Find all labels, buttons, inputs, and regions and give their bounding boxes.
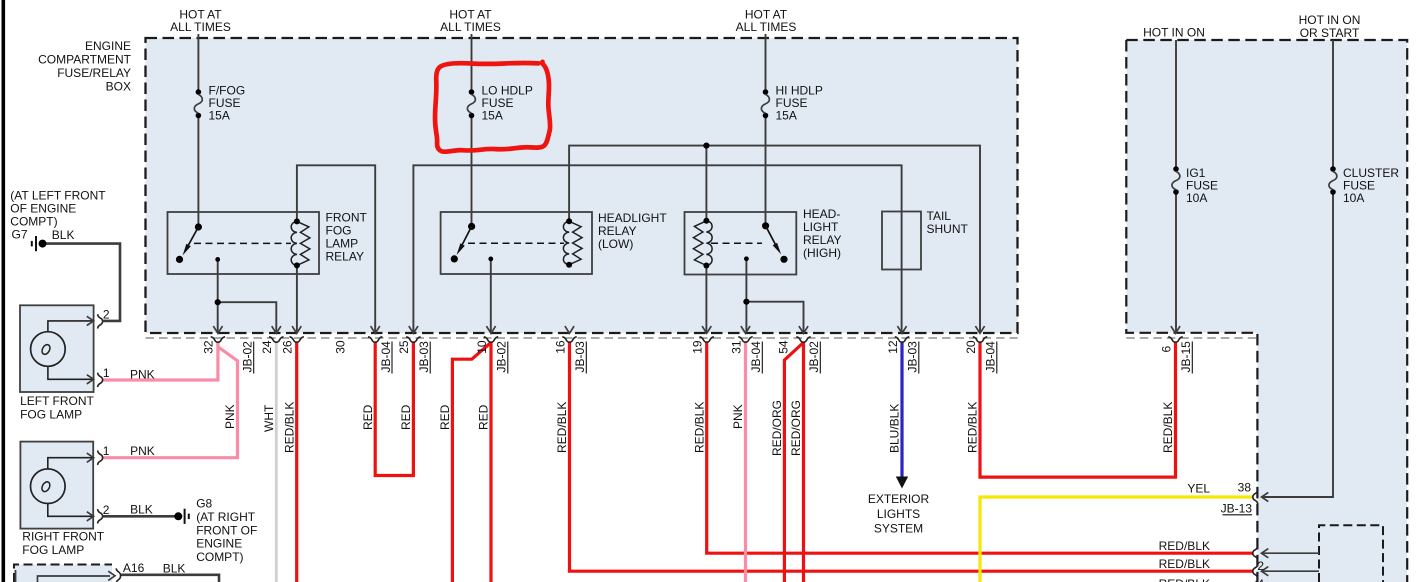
svg-text:OF ENGINE: OF ENGINE (10, 202, 76, 216)
svg-text:LIGHT: LIGHT (803, 220, 839, 234)
svg-text:ALL TIMES: ALL TIMES (170, 20, 231, 34)
svg-text:RED/BLK: RED/BLK (966, 402, 980, 453)
svg-text:1: 1 (103, 366, 110, 380)
svg-text:RED/BLK: RED/BLK (1159, 557, 1210, 571)
svg-text:15A: 15A (776, 109, 797, 123)
svg-text:JB-13: JB-13 (1221, 502, 1253, 516)
svg-text:COMPARTMENT: COMPARTMENT (38, 53, 132, 67)
label HEAD-LIGHT RELAY (HIGH) (803, 207, 841, 260)
wire fog-coil loop to conn30 (297, 165, 375, 333)
wire low-coil to conn20 (line A) (569, 146, 980, 333)
svg-text:2: 2 (1257, 559, 1264, 573)
wire RED/BLK conn26 (295, 342, 298, 582)
engine compartment fuse/relay box (dashed blue box) (146, 38, 1018, 333)
connector A16 (108, 561, 185, 582)
fuse IG1 10A (1172, 166, 1218, 205)
svg-text:38: 38 (1238, 481, 1252, 495)
label TAIL SHUNT (927, 209, 969, 236)
svg-text:BLU/BLK: BLU/BLK (888, 404, 902, 453)
wire PNK conn32 to left fog lamp (103, 342, 218, 380)
label (AT LEFT FRONT OF ENGINE COMPT) (10, 189, 106, 229)
label FRONT FOG LAMP RELAY (326, 211, 368, 264)
connector pin 24 (260, 326, 283, 354)
connector pin 19 (691, 326, 714, 354)
connector pin 20 JB-04 (964, 326, 998, 373)
svg-text:JB-03: JB-03 (573, 341, 587, 373)
svg-text:ENGINE: ENGINE (196, 537, 242, 551)
label HOT AT ALL TIMES (right) (736, 8, 797, 35)
svg-text:LIGHTS: LIGHTS (877, 507, 920, 521)
headlight relay (low) switch (451, 223, 564, 263)
svg-text:BOX: BOX (106, 80, 131, 94)
connector pin 54 JB-02 (777, 326, 822, 373)
svg-text:JB-04: JB-04 (749, 341, 763, 373)
svg-text:WHT: WHT (262, 404, 276, 432)
junction dot line A (703, 143, 709, 149)
svg-text:RELAY: RELAY (326, 250, 364, 264)
svg-text:HEAD-: HEAD- (803, 207, 840, 221)
svg-text:LEFT FRONT: LEFT FRONT (20, 394, 94, 408)
pin 1 left fog lamp (87, 366, 110, 387)
fuse F/FOG 15A (194, 84, 245, 123)
wire high-coil to conn19 (705, 266, 707, 334)
svg-text:FOG: FOG (326, 224, 352, 238)
svg-text:10: 10 (475, 340, 489, 354)
svg-text:RED/ORG: RED/ORG (789, 400, 803, 456)
wire RED conn30 to conn25 (U) (375, 342, 413, 476)
svg-text:PNK: PNK (223, 404, 237, 429)
svg-text:JB-02: JB-02 (807, 341, 821, 373)
svg-text:RED/BLK: RED/BLK (555, 402, 569, 453)
svg-text:JB-15: JB-15 (1179, 341, 1193, 373)
junction block dashed blue box (right) (1126, 40, 1407, 582)
bulb left fog lamp (31, 332, 66, 367)
svg-text:(AT LEFT FRONT: (AT LEFT FRONT (10, 189, 106, 203)
svg-text:FUSE/RELAY: FUSE/RELAY (57, 66, 131, 80)
svg-text:(AT RIGHT: (AT RIGHT (196, 510, 256, 524)
svg-text:RED/BLK: RED/BLK (282, 402, 296, 453)
connector pin 26 (281, 326, 304, 354)
svg-text:32: 32 (202, 340, 216, 354)
svg-text:JB-02: JB-02 (241, 341, 255, 373)
svg-text:RED/BLK: RED/BLK (692, 402, 706, 453)
svg-text:6: 6 (1159, 346, 1173, 353)
svg-text:RELAY: RELAY (598, 224, 636, 238)
connector 2 RED/BLK (lower right) (1159, 557, 1319, 578)
wire LO HDLP fuse feed (471, 34, 473, 226)
connector pin 6 JB-15 (1159, 326, 1193, 373)
label HOT AT ALL TIMES (center) (440, 8, 501, 35)
connector 4 RED/BLK (clipped at bottom) (1159, 577, 1265, 582)
connector pin 16 JB-03 (553, 326, 587, 373)
pin 2 left fog lamp (87, 308, 110, 329)
label (AT RIGHT FRONT OF ENGINE COMPT) (196, 510, 257, 564)
headlight relay (high) switch (711, 222, 788, 263)
svg-text:10A: 10A (1186, 191, 1207, 205)
svg-text:ENGINE: ENGINE (85, 39, 131, 53)
wire HI HDLP fuse feed (765, 34, 767, 226)
wire IG1 fuse feed (1175, 40, 1177, 333)
pin 1 right fog lamp (87, 444, 110, 465)
fuse LO HDLP 15A (467, 84, 532, 123)
fuse CLUSTER 10A (1329, 166, 1399, 205)
fuse HI HDLP 15A (761, 84, 822, 123)
svg-text:BLK: BLK (52, 228, 75, 242)
svg-text:JB-02: JB-02 (495, 341, 509, 373)
svg-text:RED/BLK: RED/BLK (1159, 539, 1210, 553)
wire RED/BLK conn19 to right connector (707, 342, 1253, 553)
svg-text:RIGHT FRONT: RIGHT FRONT (22, 530, 104, 544)
wire PNK conn32 to right fog lamp (103, 342, 238, 458)
svg-text:RED: RED (477, 404, 491, 430)
svg-text:(LOW): (LOW) (598, 237, 633, 251)
connector pin 12 JB-03 (886, 326, 920, 373)
wire fog relay output (218, 259, 277, 333)
headlight relay (low) coil (563, 218, 582, 267)
svg-text:JB-03: JB-03 (417, 341, 431, 373)
svg-text:JB-03: JB-03 (906, 341, 920, 373)
svg-text:YEL: YEL (1187, 482, 1210, 496)
svg-text:RED: RED (438, 404, 452, 430)
svg-text:FRONT: FRONT (326, 211, 368, 225)
svg-text:16: 16 (553, 340, 567, 354)
svg-text:54: 54 (777, 340, 791, 354)
label HOT AT ALL TIMES (left) (170, 8, 231, 35)
connector rail under junction block notch (1126, 337, 1257, 339)
wire RED conn10 branch (452, 343, 491, 582)
wire RED/BLK conn16 to right connector (570, 342, 1254, 571)
svg-text:ALL TIMES: ALL TIMES (440, 20, 501, 34)
wire PNK conn31 (744, 342, 747, 582)
wire fog-coil to conn26 (296, 265, 298, 333)
svg-text:RED: RED (399, 404, 413, 430)
svg-text:RED/BLK: RED/BLK (1161, 402, 1175, 453)
connector pin 25 JB-03 (397, 326, 431, 373)
connector pin 10 JB-02 (475, 326, 509, 373)
wire WHT conn24 (275, 342, 278, 582)
junction dot high output (743, 299, 749, 305)
wire RED/ORG conn54 straight (802, 342, 805, 582)
svg-text:4: 4 (1257, 577, 1264, 582)
svg-text:2: 2 (103, 503, 110, 517)
wire CLUSTER fuse feed (1262, 40, 1334, 497)
arrowhead exterior lights (896, 477, 908, 489)
label HOT IN ON OR START (1299, 13, 1361, 40)
svg-text:JB-04: JB-04 (379, 341, 393, 373)
right front fog lamp box (20, 442, 93, 529)
svg-text:RED/ORG: RED/ORG (770, 400, 784, 456)
bulb right fog lamp (31, 469, 66, 504)
svg-text:SHUNT: SHUNT (927, 222, 969, 236)
svg-text:FOG LAMP: FOG LAMP (20, 407, 82, 421)
svg-text:BLK: BLK (130, 502, 153, 516)
svg-text:24: 24 (260, 340, 274, 354)
label ENGINE COMPARTMENT FUSE/RELAY BOX (38, 39, 132, 94)
svg-text:HEADLIGHT: HEADLIGHT (598, 211, 667, 225)
svg-text:10A: 10A (1343, 191, 1364, 205)
wire low relay output to conn10 (490, 259, 492, 333)
svg-text:G7: G7 (12, 228, 28, 242)
label EXTERIOR LIGHTS SYSTEM (868, 492, 930, 536)
svg-text:G8: G8 (196, 497, 212, 511)
ground G7 (12, 228, 121, 321)
svg-text:SYSTEM: SYSTEM (874, 522, 923, 536)
front fog relay switch (176, 223, 291, 263)
wire conn25 to conn12 via tail shunt (line B) (413, 165, 901, 333)
wire high relay output (746, 259, 803, 333)
label HEADLIGHT RELAY (LOW) (598, 211, 667, 251)
connector rail under fuse box (146, 337, 1018, 339)
svg-text:26: 26 (281, 340, 295, 354)
svg-text:2: 2 (103, 308, 110, 322)
svg-text:30: 30 (334, 340, 348, 354)
front fog lamp relay box (168, 212, 320, 274)
label LEFT FRONT FOG LAMP (20, 394, 94, 421)
svg-text:31: 31 (729, 340, 743, 354)
svg-text:15A: 15A (482, 109, 503, 123)
svg-text:1: 1 (103, 444, 110, 458)
headlight relay (low) box (441, 212, 592, 274)
left front fog lamp box (20, 305, 94, 392)
wire branch to high-coil (705, 146, 707, 221)
svg-text:25: 25 (397, 340, 411, 354)
connector pin 31 JB-04 (729, 326, 763, 373)
tail shunt box (882, 212, 921, 270)
svg-text:PNK: PNK (130, 444, 155, 458)
connector pin 30 JB-04 (334, 326, 393, 373)
wire F/FOG fuse feed (197, 34, 199, 227)
ground G8 (103, 497, 213, 524)
wire RED/ORG conn54 branch (784, 343, 803, 582)
svg-text:(HIGH): (HIGH) (803, 246, 841, 260)
svg-text:15A: 15A (209, 109, 230, 123)
svg-text:JB-04: JB-04 (984, 341, 998, 373)
wire YEL conn38 (980, 497, 1253, 582)
headlight relay (high) box (685, 212, 797, 275)
svg-text:19: 19 (691, 340, 705, 354)
junction dot fog output (215, 299, 221, 305)
svg-text:COMPT): COMPT) (196, 550, 243, 564)
red hand-drawn annotation circle around LO HDLP fuse (435, 62, 550, 152)
svg-text:RED: RED (361, 404, 375, 430)
svg-text:20: 20 (964, 340, 978, 354)
connector pin 32 JB-02 (202, 326, 255, 373)
svg-text:LAMP: LAMP (326, 237, 359, 251)
svg-text:PNK: PNK (731, 404, 745, 429)
A16 component dashed box (bottom left) (14, 565, 112, 582)
connector RED/BLK (upper right) (1159, 539, 1319, 561)
svg-text:EXTERIOR: EXTERIOR (868, 492, 930, 506)
svg-text:TAIL: TAIL (927, 209, 952, 223)
svg-text:HOT IN ON: HOT IN ON (1143, 26, 1205, 40)
svg-text:FOG LAMP: FOG LAMP (22, 543, 84, 557)
wire RED conn10 straight (489, 342, 492, 582)
wire RED/BLK conn20 to conn6 (U) (980, 342, 1176, 477)
pin 2 right fog lamp (87, 503, 110, 524)
svg-text:ALL TIMES: ALL TIMES (736, 20, 797, 34)
front fog relay coil (291, 218, 310, 268)
headlight relay (high) coil (693, 218, 712, 269)
page border bar left (2, 0, 6, 582)
wire BLU/BLK conn12 to exterior lights (900, 342, 903, 478)
label RIGHT FRONT FOG LAMP (22, 530, 104, 558)
svg-text:COMPT): COMPT) (10, 215, 57, 229)
label HOT IN ON (1143, 26, 1205, 40)
inner dashed box (bottom right component) (1319, 525, 1383, 582)
connector 38 JB-13 (YEL) (1187, 481, 1268, 516)
svg-text:12: 12 (886, 340, 900, 354)
svg-text:BLK: BLK (163, 562, 186, 576)
svg-text:A16: A16 (123, 561, 145, 575)
svg-text:RED/BLK: RED/BLK (1159, 577, 1210, 582)
svg-text:PNK: PNK (130, 367, 155, 381)
svg-text:RELAY: RELAY (803, 233, 841, 247)
svg-text:FRONT OF: FRONT OF (196, 523, 257, 537)
wire BLK A16 (121, 575, 219, 582)
svg-text:OR START: OR START (1300, 26, 1360, 40)
